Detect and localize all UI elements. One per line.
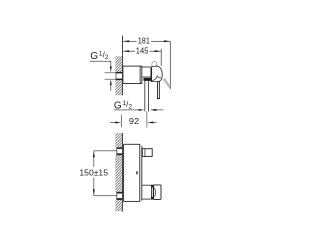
dimension 145 extension line xyxy=(160,49,163,66)
outlet ring dark bottom xyxy=(151,197,154,200)
valve body bottom line xyxy=(142,76,151,79)
dimension 150 up arrow xyxy=(93,151,95,157)
dimension 92 left arrow tail xyxy=(110,121,115,124)
wall union block left edge xyxy=(115,72,118,80)
svg-text:181: 181 xyxy=(138,35,150,45)
bottom union block top edge xyxy=(116,192,122,194)
top union block left edge xyxy=(115,147,118,155)
wall hatching upper part xyxy=(108,36,126,232)
outlet neck bottom line xyxy=(142,198,152,201)
top union block bottom edge xyxy=(116,153,122,155)
pipe right counter arrow tail xyxy=(156,109,163,112)
cartridge cap tab xyxy=(151,61,157,68)
pipe right counter arrow xyxy=(150,109,157,111)
dimension 92 left arrow xyxy=(115,122,121,124)
dimension 181 left arrow xyxy=(123,40,129,42)
svg-text:145: 145 xyxy=(136,45,149,55)
label G 1/2 middle arrowhead (right) xyxy=(139,109,145,111)
union extension line bottom xyxy=(105,78,116,81)
dimension 92 right arrow xyxy=(147,122,153,124)
cartridge dome inner arc xyxy=(152,76,161,81)
wall hatching upper part xyxy=(108,36,126,232)
dimension 150 line upper segment xyxy=(93,151,96,167)
cartridge dome left thick edge xyxy=(151,68,153,82)
wall union block bottom edge xyxy=(116,79,123,81)
valve body locknut dark band xyxy=(143,78,150,81)
label G 1/2 upper leader underline xyxy=(90,60,111,63)
bottom union block bottom edge xyxy=(116,198,122,200)
valve body top line xyxy=(142,66,151,69)
lever handle swung ghost line 1 xyxy=(163,79,170,88)
lever handle (down position) right edge xyxy=(158,81,161,98)
label G 1/2 middle leader underline xyxy=(114,109,140,112)
dimension 145 right arrow xyxy=(155,50,161,52)
dimension 150 down arrow xyxy=(93,189,95,195)
dimension 145 line xyxy=(123,50,135,53)
lever handle (down position) left edge xyxy=(156,81,159,98)
escutcheon end inner line xyxy=(139,66,142,83)
wall hatching lower part xyxy=(108,36,126,232)
top inlet nipple inner line xyxy=(144,149,147,157)
outlet neck top line xyxy=(142,184,152,187)
mixer body front cover line xyxy=(140,146,143,201)
dimension 181 line xyxy=(123,40,137,43)
dimension 150 bottom extension line xyxy=(94,194,117,197)
wall face line xyxy=(121,133,124,211)
svg-text:150±15: 150±15 xyxy=(79,168,108,178)
label G 1/2 upper leader vertical xyxy=(110,61,113,67)
dimension 181 right arrow xyxy=(164,40,170,42)
lever handle swung ghost line 2 xyxy=(164,78,170,86)
escutcheon body xyxy=(123,66,142,83)
top inlet nipple xyxy=(142,149,152,157)
dimension 92 right arrow tail xyxy=(153,121,157,124)
union small up arrow xyxy=(110,79,112,85)
union small up arrow tail xyxy=(110,85,113,91)
union extension line top xyxy=(105,72,116,75)
outlet cap inner arc xyxy=(154,188,155,197)
wall hatching middle part xyxy=(108,36,126,232)
wall hatching lower part xyxy=(108,36,126,232)
wall face line / extension line xyxy=(121,36,124,96)
lever handle end cap xyxy=(157,98,160,99)
bottom union block left edge xyxy=(115,192,118,200)
outlet ring dark top xyxy=(151,185,154,188)
top union block top edge xyxy=(116,147,122,149)
dimension 150 top extension line xyxy=(94,150,117,153)
mixer body xyxy=(124,144,140,201)
svg-text:92: 92 xyxy=(129,116,139,126)
wall union block top edge xyxy=(116,72,123,74)
body small tick detail xyxy=(136,171,137,174)
outlet cap xyxy=(154,185,161,200)
pipe centre extension line xyxy=(146,111,149,127)
cartridge dome xyxy=(151,66,162,81)
dimension 145 left arrow xyxy=(123,50,129,52)
shower outlet pipe left edge xyxy=(143,81,146,112)
label G 1/2 upper leader arrowhead (down) xyxy=(110,66,112,72)
outlet ring right line xyxy=(152,185,155,199)
dimension 150 line lower segment xyxy=(93,177,96,195)
dimension 92 left extension line xyxy=(120,115,123,127)
shower outlet pipe right edge xyxy=(147,81,150,112)
dimension 181 extension line xyxy=(169,41,172,89)
outlet ring left line xyxy=(150,185,153,199)
